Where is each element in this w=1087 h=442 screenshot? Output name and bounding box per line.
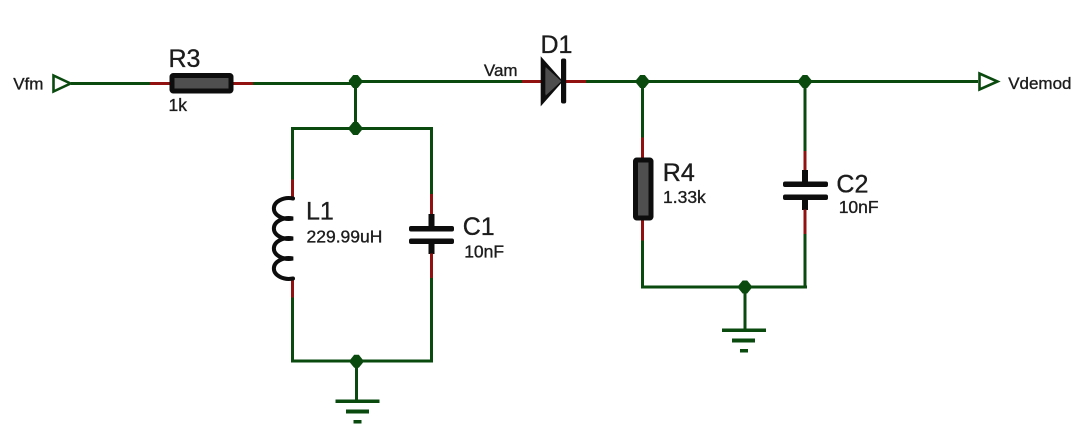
svg-text:1.33k: 1.33k (663, 187, 706, 207)
svg-text:C1: C1 (463, 213, 495, 241)
svg-text:L1: L1 (306, 197, 334, 225)
svg-text:D1: D1 (541, 31, 573, 59)
svg-text:C2: C2 (836, 171, 868, 199)
svg-text:10nF: 10nF (464, 242, 504, 262)
svg-text:Vam: Vam (484, 61, 518, 80)
svg-text:229.99uH: 229.99uH (307, 227, 383, 247)
svg-text:R3: R3 (169, 45, 201, 73)
svg-text:1k: 1k (169, 95, 188, 115)
svg-text:Vfm: Vfm (13, 74, 43, 93)
svg-text:R4: R4 (663, 159, 695, 187)
svg-text:10nF: 10nF (839, 197, 879, 217)
svg-text:Vdemod: Vdemod (1008, 74, 1071, 93)
